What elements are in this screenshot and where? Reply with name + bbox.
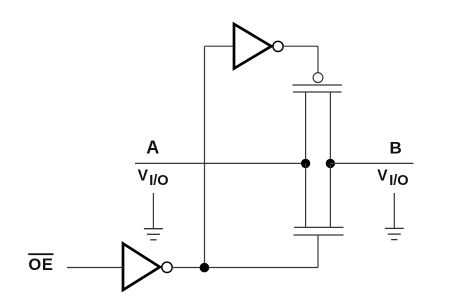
svg-text:I/O: I/O [149,173,168,189]
wire OE input [67,267,124,269]
svg-text:OE: OE [28,256,53,274]
wire PMOS right source/drain down to B node [329,92,331,163]
svg-text:B: B [390,138,402,157]
transistor Q2 NMOS gate bar [294,234,344,236]
wire NMOS right source/drain from B node down [329,163,331,227]
transistor Q1 PMOS gate bubble [313,73,323,83]
wire right VI/O ground stub [393,193,395,228]
inverter U1 (top) [234,24,283,69]
label VI/O right [377,167,408,189]
node junction dot B side [326,159,335,168]
wire top inverter input horizontal [205,45,236,47]
wire bottom horizontal from inverter U2 output to NMOS gate [173,267,318,269]
label VI/O left [138,167,169,189]
label OE with overline [28,253,53,274]
wire top inverter output horizontal [284,45,318,47]
label B [390,138,402,157]
wire A line [135,162,306,164]
svg-text:I/O: I/O [389,173,408,189]
inverter U2 (bottom) [123,244,172,291]
wire NMOS left source/drain from A node down [305,163,307,227]
svg-text:V: V [138,167,149,184]
transistor Q1 PMOS channel bar [293,91,342,93]
wire PMOS left source/drain down to A node [305,92,307,163]
wire left VI/O ground stub [152,193,154,229]
ground right [385,228,404,239]
node junction dot OE [200,263,210,273]
transistor Q1 PMOS gate bar [293,84,343,86]
wire down to PMOS gate bubble [317,46,319,72]
label A [146,138,159,158]
ground left [144,229,163,240]
transistor Q2 NMOS channel bar [294,226,344,228]
svg-text:V: V [377,167,388,184]
wire vertical from OE node to top inverter input [204,46,206,267]
node junction dot A side [301,159,310,168]
wire NMOS gate drop [317,235,319,268]
svg-text:A: A [146,138,159,158]
wire B line [330,162,413,164]
